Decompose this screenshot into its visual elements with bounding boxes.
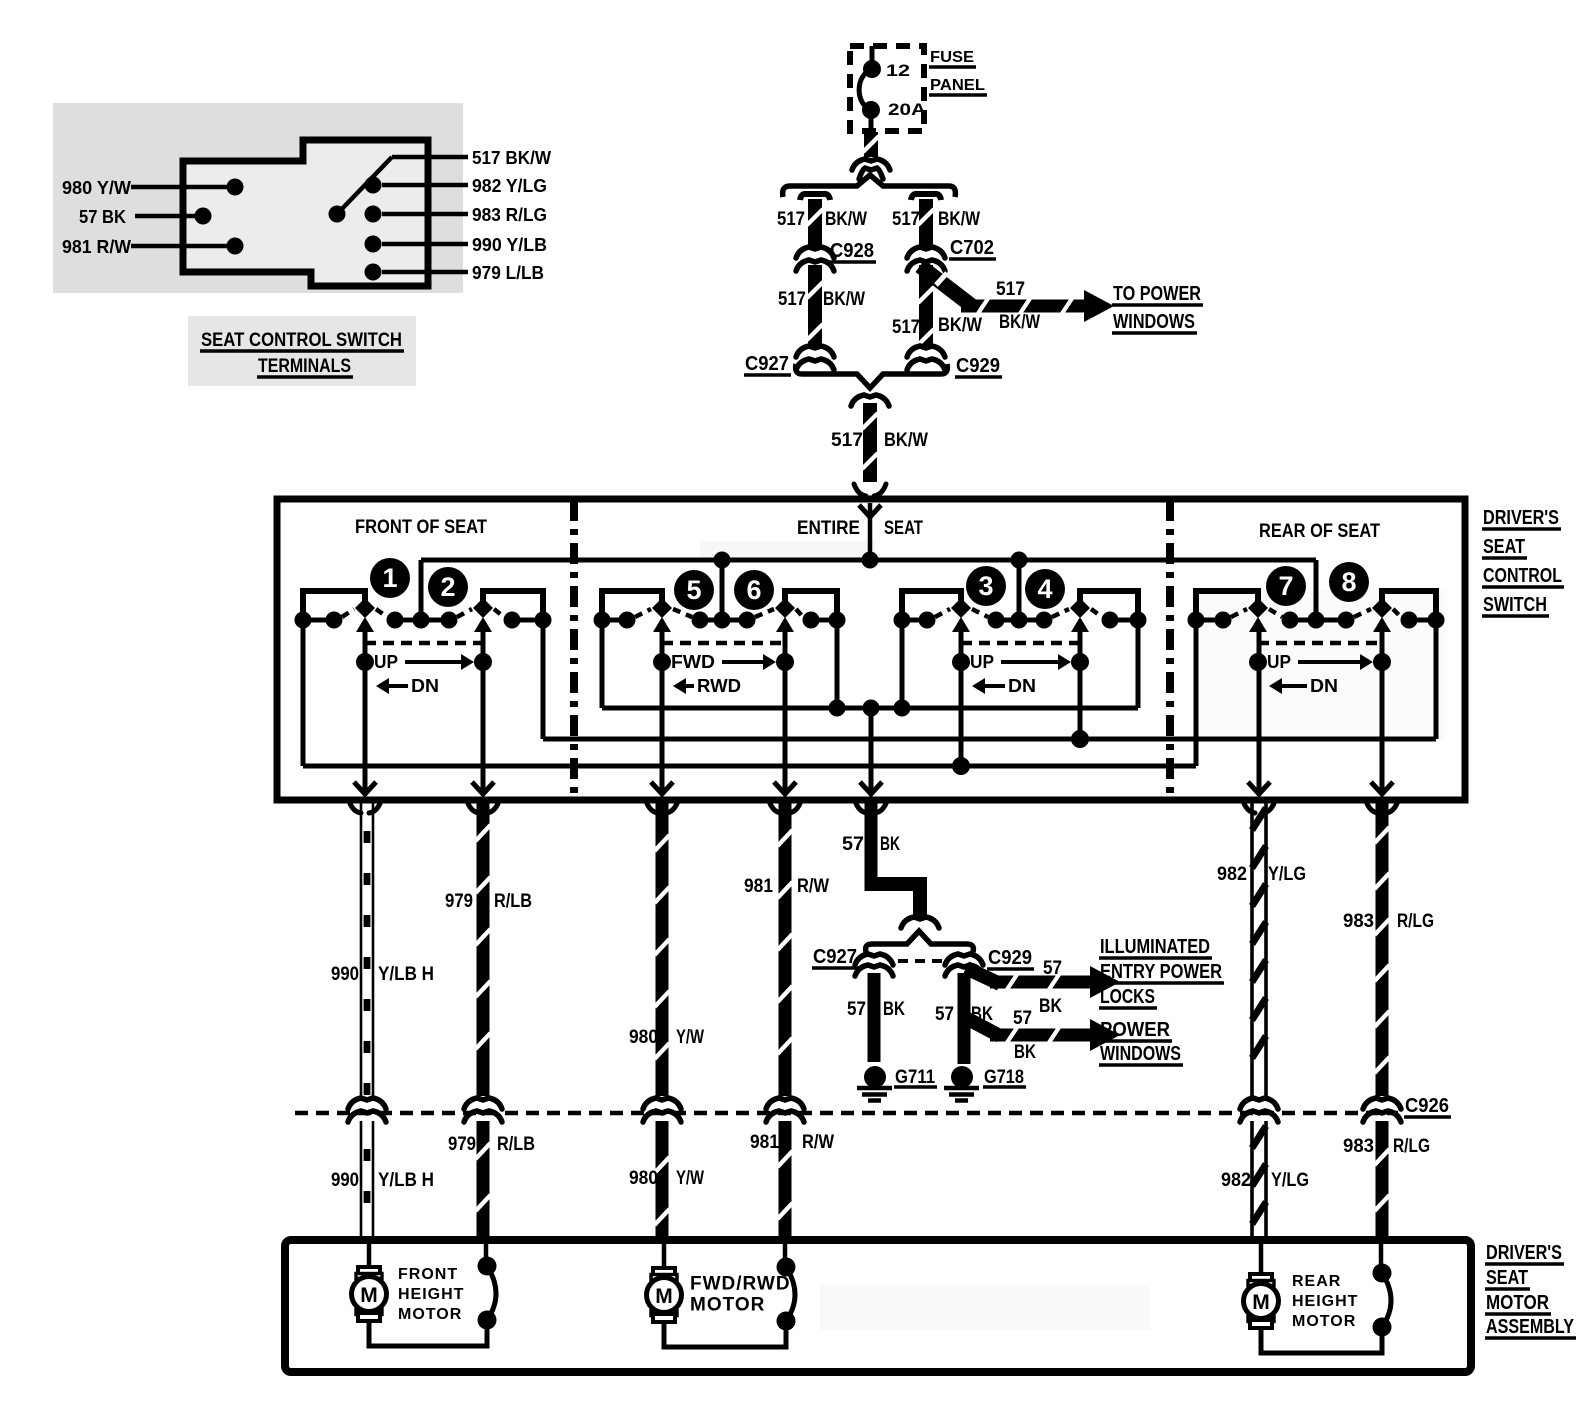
arrow 57 BK to power windows xyxy=(966,1018,1000,1036)
switch rear contact dot x1290 xyxy=(1282,612,1299,629)
svg-text:FWD/RWD: FWD/RWD xyxy=(690,1274,791,1295)
wire 981 R/W lower xyxy=(779,1121,792,1240)
wire 979 R/LB upper xyxy=(477,803,490,1096)
svg-text:57 BK: 57 BK xyxy=(79,207,126,227)
svg-text:ENTIRE: ENTIRE xyxy=(797,518,860,539)
svg-text:MOTOR: MOTOR xyxy=(690,1295,765,1316)
svg-text:HEIGHT: HEIGHT xyxy=(398,1286,464,1303)
switch front right hood xyxy=(483,591,543,618)
wire 980 Y/W lower xyxy=(656,1121,669,1240)
switch fwdrwd pivot P1 xyxy=(652,598,672,618)
svg-text:BK/W: BK/W xyxy=(823,289,865,310)
svg-text:MOTOR: MOTOR xyxy=(1292,1313,1356,1330)
switch entireud contact dot x1138 xyxy=(1130,612,1147,629)
svg-text:981 R/W: 981 R/W xyxy=(62,237,131,257)
lead 982 Y/LG xyxy=(382,183,468,188)
svg-text:517: 517 xyxy=(777,209,805,230)
switch rear contact dot x1436 xyxy=(1428,612,1445,629)
divider entire-rear xyxy=(1166,500,1174,799)
svg-text:WINDOWS: WINDOWS xyxy=(1113,311,1195,333)
bus junction 5-6 xyxy=(714,552,731,569)
svg-text:MOTOR: MOTOR xyxy=(398,1306,462,1323)
wire 517 BK/W left branch cap xyxy=(800,194,830,200)
lead 57 BK xyxy=(135,214,196,219)
scan shading behind seat control switch terminals xyxy=(53,103,463,293)
switch front pivot P1 xyxy=(355,598,375,618)
pin 979 terminal xyxy=(365,264,382,281)
svg-text:R/LG: R/LG xyxy=(1397,911,1434,932)
svg-text:LOCKS: LOCKS xyxy=(1100,986,1155,1008)
connector C702 xyxy=(907,247,945,258)
svg-text:G711: G711 xyxy=(895,1067,935,1088)
switch entireud contact dot x902 xyxy=(894,612,911,629)
switch entireud node P1 dot xyxy=(952,653,970,671)
fuse panel dashed box xyxy=(850,46,924,131)
switch front circle 1 xyxy=(370,558,410,598)
svg-text:20A: 20A xyxy=(888,100,926,119)
svg-text:R/LG: R/LG xyxy=(1393,1136,1430,1157)
svg-text:979: 979 xyxy=(445,891,473,912)
connector cup 979 xyxy=(467,801,479,813)
wire 57 in box xyxy=(869,708,874,792)
switch fwdrwd contact row xyxy=(602,618,627,623)
line A junction 57 xyxy=(863,700,880,717)
svg-text:517: 517 xyxy=(892,317,920,338)
pole 3 wire in box xyxy=(959,629,964,766)
harness dashed line C926 xyxy=(295,1111,1398,1116)
line B junction pole4 xyxy=(1071,730,1089,748)
svg-text:C929: C929 xyxy=(956,355,1000,377)
switch rear contact row xyxy=(1196,618,1223,623)
wire 980 Y/W upper xyxy=(656,803,669,1096)
svg-text:BK: BK xyxy=(1039,996,1062,1017)
switch entireud pivot P1 xyxy=(951,598,971,618)
connector C926 at wire 980 xyxy=(643,1098,681,1109)
svg-text:982 Y/LG: 982 Y/LG xyxy=(472,176,547,196)
line A junction 902 xyxy=(894,700,911,717)
switch entireud left hood xyxy=(902,591,961,618)
wire to motor at x1261 xyxy=(1259,1244,1264,1274)
svg-text:ILLUMINATED: ILLUMINATED xyxy=(1100,936,1210,958)
dashed link C927-C929 xyxy=(898,959,942,963)
svg-text:990: 990 xyxy=(331,964,359,985)
ground G711 xyxy=(864,1066,886,1088)
switch fwdrwd circle 6 xyxy=(734,570,774,610)
switch fwdrwd pivot P2 xyxy=(775,598,795,618)
svg-text:C926: C926 xyxy=(1405,1095,1449,1117)
svg-text:983: 983 xyxy=(1343,1136,1374,1157)
line A junction 837 xyxy=(829,700,846,717)
svg-text:Y/W: Y/W xyxy=(676,1168,704,1189)
wire 517 BK/W from fuse xyxy=(864,132,878,157)
switch fwdrwd node P1 dot xyxy=(653,653,671,671)
svg-text:BK/W: BK/W xyxy=(938,209,980,230)
lead 981 R/W xyxy=(131,244,228,249)
wire 517 BK/W left branch xyxy=(808,199,822,247)
pin 980 terminal xyxy=(227,179,244,196)
wire to motor at x369 xyxy=(367,1244,372,1267)
motor M at x664 xyxy=(653,1268,675,1276)
wire 517 BK/W below C702 xyxy=(919,265,933,346)
svg-text:TO POWER: TO POWER xyxy=(1113,283,1201,305)
pole 981 wire in box xyxy=(783,629,788,792)
net line B xyxy=(543,737,1436,742)
wire 517 entry arrowhead xyxy=(859,505,881,517)
svg-text:980 Y/W: 980 Y/W xyxy=(62,178,131,198)
scan speckle patches xyxy=(1195,590,1445,740)
pin 983 terminal xyxy=(365,206,382,223)
svg-text:982: 982 xyxy=(1217,864,1247,885)
switch front contact dot x449 xyxy=(441,612,458,629)
svg-text:980: 980 xyxy=(629,1027,658,1048)
switch fwdrwd wiper dashes xyxy=(635,609,651,617)
power bus in switch xyxy=(421,558,1316,563)
pole 983 wire in box xyxy=(1380,629,1385,792)
switch front arrow UP xyxy=(405,660,463,664)
connector C926 at wire 979 xyxy=(464,1098,502,1109)
svg-text:PANEL: PANEL xyxy=(930,77,985,94)
connector C926 at wire 990 xyxy=(348,1098,386,1109)
svg-text:G718: G718 xyxy=(984,1067,1024,1088)
pole 980 wire in box xyxy=(660,629,665,792)
switch entireud arrow DN xyxy=(983,684,1005,688)
svg-text:Y/LB H: Y/LB H xyxy=(378,1170,434,1191)
switch fwdrwd arrow RWD xyxy=(684,684,694,688)
wire 57 BK to G711 xyxy=(868,973,881,1062)
svg-text:REAR: REAR xyxy=(1292,1273,1341,1290)
switch rear contact dot x1409 xyxy=(1401,612,1418,629)
lead 980 Y/W xyxy=(131,185,228,190)
wire 517 BK/W to switch xyxy=(863,403,877,482)
svg-text:R/W: R/W xyxy=(802,1132,834,1153)
svg-text:C928: C928 xyxy=(830,240,874,262)
switch fwdrwd right hood xyxy=(785,591,837,618)
svg-text:ASSEMBLY: ASSEMBLY xyxy=(1486,1316,1575,1338)
wire 517 BK/W right branch cap xyxy=(911,194,941,200)
svg-text:517: 517 xyxy=(778,289,806,310)
switch rear node P2 dot xyxy=(1373,653,1391,671)
switch entireud contact dot x1110 xyxy=(1102,612,1119,629)
switch entireud contact row xyxy=(902,618,927,623)
switch rear contact dot x1196 xyxy=(1188,612,1205,629)
svg-text:BK/W: BK/W xyxy=(825,209,867,230)
switch fwdrwd contact dot x700 xyxy=(692,612,709,629)
svg-text:M: M xyxy=(360,1284,378,1307)
switch front contact dot x543 xyxy=(535,612,552,629)
switch front arrow DN xyxy=(387,684,408,688)
svg-text:CONTROL: CONTROL xyxy=(1483,565,1562,587)
svg-text:UP: UP xyxy=(374,652,398,672)
svg-text:517: 517 xyxy=(996,279,1025,300)
57 splice bracket xyxy=(866,931,974,952)
svg-text:SEAT: SEAT xyxy=(884,518,923,539)
switch fwdrwd contact dot x837 xyxy=(829,612,846,629)
svg-text:SEAT: SEAT xyxy=(1483,536,1525,558)
svg-text:517: 517 xyxy=(892,209,920,230)
switch rear contact dot x1346 xyxy=(1338,612,1355,629)
switch rear contact dot x1316 xyxy=(1308,612,1325,629)
pin 517 inner terminal xyxy=(329,206,346,223)
svg-text:980: 980 xyxy=(629,1168,658,1189)
switch entireud contact dot x927 xyxy=(919,612,936,629)
connector C927 lower xyxy=(855,954,893,965)
connector cap below splice xyxy=(851,395,889,406)
svg-text:C927: C927 xyxy=(745,353,789,375)
motor M at x369 xyxy=(358,1267,380,1275)
switch fwdrwd throw dashed line xyxy=(662,641,785,646)
svg-text:SEAT CONTROL SWITCH: SEAT CONTROL SWITCH xyxy=(201,330,402,351)
switch rear pivot P2 xyxy=(1372,598,1392,618)
switch entireud circle 3 xyxy=(966,566,1006,606)
svg-text:Y/LG: Y/LG xyxy=(1271,1170,1309,1191)
wire 57 BK below box xyxy=(865,803,878,883)
svg-text:REAR OF SEAT: REAR OF SEAT xyxy=(1259,521,1380,542)
svg-text:POWER: POWER xyxy=(1100,1019,1171,1041)
lead 517 BK/W diagonal xyxy=(337,157,392,214)
switch rear arrow DN xyxy=(1280,684,1307,688)
arrow to power windows 517 BK/W xyxy=(961,300,1088,313)
svg-text:517: 517 xyxy=(831,430,863,451)
switch front contact dot x421 xyxy=(413,612,430,629)
switch rear circle 8 xyxy=(1329,562,1369,602)
wire 517 BK/W below C928 xyxy=(808,265,822,346)
switch entireud right hood xyxy=(1080,591,1138,618)
lead 983 R/LG xyxy=(382,212,468,217)
wire 981 R/W upper xyxy=(779,803,792,1096)
switch fwdrwd circle 5 xyxy=(674,570,714,610)
switch entireud node P2 dot xyxy=(1071,653,1089,671)
switch fwdrwd contact dot x747 xyxy=(739,612,756,629)
switch rear arrow UP xyxy=(1298,660,1362,664)
switch rear left hood xyxy=(1196,591,1258,618)
svg-text:981: 981 xyxy=(750,1132,779,1153)
switch front pivot P2 xyxy=(473,598,493,618)
svg-text:990 Y/LB: 990 Y/LB xyxy=(472,235,547,255)
svg-text:Y/LG: Y/LG xyxy=(1268,864,1306,885)
switch front circle 2 xyxy=(428,567,468,607)
svg-text:TERMINALS: TERMINALS xyxy=(258,356,351,377)
connector C929 xyxy=(907,346,945,357)
svg-text:C929: C929 xyxy=(988,947,1032,969)
svg-text:FWD: FWD xyxy=(671,652,715,672)
svg-text:6: 6 xyxy=(746,575,761,605)
switch front contact dot x303 xyxy=(295,612,312,629)
arrow 57 BK to illuminated entry xyxy=(966,968,1000,984)
pin 982 terminal xyxy=(365,177,382,194)
wire 57 BK elbow xyxy=(865,877,928,891)
svg-text:57: 57 xyxy=(935,1004,954,1025)
svg-text:12: 12 xyxy=(886,61,910,80)
svg-text:SWITCH: SWITCH xyxy=(1483,594,1547,616)
connector C928 xyxy=(796,247,834,258)
svg-text:M: M xyxy=(1252,1291,1270,1314)
motor bottom wire at x369 xyxy=(369,1320,487,1346)
svg-text:RWD: RWD xyxy=(697,676,741,696)
drivers seat motor assembly box xyxy=(285,1240,1471,1372)
connector cap 57 splice xyxy=(901,917,939,928)
wire to motor at x664 xyxy=(662,1244,667,1268)
svg-text:BK: BK xyxy=(883,999,905,1020)
seat control switch connector body xyxy=(183,140,428,286)
wire 983 R/LG lower xyxy=(1376,1121,1389,1240)
wire 990 Y/LB H lower xyxy=(360,1121,363,1240)
svg-text:ENTRY POWER: ENTRY POWER xyxy=(1100,961,1222,983)
wire 983 R/LG upper xyxy=(1376,803,1389,1096)
switch rear throw dashed line xyxy=(1258,641,1382,646)
switch front contact dot x395 xyxy=(387,612,404,629)
motor M at x1261 xyxy=(1250,1274,1272,1282)
svg-text:C927: C927 xyxy=(813,946,857,968)
svg-text:DRIVER'S: DRIVER'S xyxy=(1486,1242,1562,1264)
switch entireud throw dashed line xyxy=(961,641,1080,646)
wire 517 BK/W right branch xyxy=(919,199,933,247)
pole 4 wire in box xyxy=(1078,629,1083,739)
wire 982 Y/LG upper xyxy=(1250,803,1254,1096)
ground line A xyxy=(602,706,1138,711)
bus junction 517 feed xyxy=(862,552,879,569)
switch entireud pivot P2 xyxy=(1070,598,1090,618)
svg-text:M: M xyxy=(655,1285,673,1308)
switch front throw dashed line xyxy=(365,641,483,646)
connector cup 983 xyxy=(1366,801,1378,813)
switch rear node P1 dot xyxy=(1249,653,1267,671)
switch front contact dot x512 xyxy=(504,612,521,629)
fuse 20A symbol xyxy=(863,60,881,78)
svg-text:DN: DN xyxy=(411,676,439,696)
svg-text:57: 57 xyxy=(847,999,866,1020)
lead 979 L/LB xyxy=(382,270,468,275)
divider front-entire xyxy=(570,500,578,799)
svg-text:R/LB: R/LB xyxy=(497,1134,535,1155)
connector cup 990 xyxy=(349,801,361,813)
svg-text:BK/W: BK/W xyxy=(938,315,982,336)
motor bottom wire at x1261 xyxy=(1261,1327,1382,1353)
connector C926 at wire 982 xyxy=(1240,1098,1278,1109)
switch fwdrwd contact dot x602 xyxy=(594,612,611,629)
svg-text:57: 57 xyxy=(842,834,864,855)
svg-text:FUSE: FUSE xyxy=(930,49,974,66)
switch fwdrwd node P2 dot xyxy=(776,653,794,671)
pole 990 wire in box xyxy=(363,629,368,792)
svg-text:57: 57 xyxy=(1043,958,1062,979)
svg-text:979 L/LB: 979 L/LB xyxy=(472,263,544,283)
switch front node P2 dot xyxy=(474,653,492,671)
svg-text:DN: DN xyxy=(1008,676,1036,696)
connector cap at splice S101 xyxy=(852,159,890,170)
svg-text:1: 1 xyxy=(382,563,397,593)
ground G718 xyxy=(951,1066,973,1088)
motor connector arc at x785 xyxy=(783,1244,788,1267)
connector C926 at wire 983 xyxy=(1363,1098,1401,1109)
svg-text:983 R/LG: 983 R/LG xyxy=(472,205,547,225)
switch entireud arrow UP xyxy=(1001,660,1060,664)
svg-text:982: 982 xyxy=(1221,1170,1251,1191)
bus junction 3-4 xyxy=(1011,552,1028,569)
bus drop group1 xyxy=(419,560,424,618)
svg-text:979: 979 xyxy=(448,1134,476,1155)
switch fwdrwd contact dot x811 xyxy=(803,612,820,629)
svg-text:BK: BK xyxy=(880,834,900,855)
svg-text:517 BK/W: 517 BK/W xyxy=(472,148,551,168)
svg-text:BK/W: BK/W xyxy=(999,312,1040,333)
pin 990 terminal xyxy=(365,236,382,253)
wire 982 Y/LG lower xyxy=(1250,1121,1254,1240)
wire 57 BK to G718 xyxy=(958,973,971,1064)
drivers seat control switch box xyxy=(277,499,1465,800)
pin 981 terminal xyxy=(227,238,244,255)
switch rear right hood xyxy=(1382,591,1436,618)
bus drop group7-8 xyxy=(1314,560,1319,618)
svg-text:FRONT OF SEAT: FRONT OF SEAT xyxy=(355,517,487,538)
wire 517 BK/W diagonal to power windows xyxy=(920,266,972,306)
svg-text:MOTOR: MOTOR xyxy=(1486,1292,1549,1314)
svg-text:R/W: R/W xyxy=(797,876,829,897)
svg-text:57: 57 xyxy=(1013,1008,1032,1029)
pin 57 terminal xyxy=(195,208,212,225)
svg-text:R/LB: R/LB xyxy=(494,891,532,912)
connector C929 lower xyxy=(945,954,983,965)
switch entireud wiper dashes xyxy=(935,609,950,617)
svg-text:Y/W: Y/W xyxy=(676,1027,704,1048)
svg-text:4: 4 xyxy=(1037,574,1052,604)
switch rear pivot P1 xyxy=(1248,598,1268,618)
switch front wiper dashes xyxy=(342,609,354,617)
connector C926 at wire 981 xyxy=(766,1098,804,1109)
connector cup 980 xyxy=(646,801,658,813)
svg-text:2: 2 xyxy=(440,572,455,602)
splice bracket bottom xyxy=(796,364,948,388)
switch fwdrwd contact dot x627 xyxy=(619,612,636,629)
svg-text:BK: BK xyxy=(1014,1042,1036,1063)
wire 990 Y/LB H upper xyxy=(360,803,363,1096)
svg-text:BK/W: BK/W xyxy=(884,430,928,451)
svg-text:SEAT: SEAT xyxy=(1486,1267,1528,1289)
svg-text:981: 981 xyxy=(744,876,773,897)
connector C927 xyxy=(796,346,834,357)
svg-text:FRONT: FRONT xyxy=(398,1266,458,1283)
connector cup 981 xyxy=(769,801,781,813)
switch front left hood xyxy=(303,591,365,618)
svg-text:983: 983 xyxy=(1343,911,1374,932)
switch fwdrwd contact dot x722 xyxy=(714,612,731,629)
pole 982 wire in box xyxy=(1257,629,1262,792)
svg-text:Y/LB H: Y/LB H xyxy=(378,964,434,985)
switch fwdrwd left hood xyxy=(602,591,662,618)
svg-text:WINDOWS: WINDOWS xyxy=(1100,1043,1181,1065)
svg-text:C702: C702 xyxy=(950,237,994,259)
line C junction pole3 xyxy=(952,757,970,775)
motor bottom wire at x664 xyxy=(664,1321,786,1347)
switch fwdrwd arrow FWD xyxy=(722,660,765,664)
connector cup at switch box xyxy=(854,484,866,496)
net line C xyxy=(303,764,1196,769)
switch front contact row xyxy=(303,618,334,623)
connector cup 982 xyxy=(1243,801,1255,813)
connector cup 57 xyxy=(855,801,867,813)
switch entireud contact dot x1044 xyxy=(1036,612,1053,629)
wire 979 R/LB lower xyxy=(477,1121,490,1240)
switch front contact dot x334 xyxy=(326,612,343,629)
switch entireud contact dot x996 xyxy=(988,612,1005,629)
svg-text:HEIGHT: HEIGHT xyxy=(1292,1293,1358,1310)
switch rear circle 7 xyxy=(1266,566,1306,606)
motor connector arc at x486 xyxy=(484,1244,489,1266)
svg-text:5: 5 xyxy=(686,575,701,605)
svg-text:DRIVER'S: DRIVER'S xyxy=(1483,507,1559,529)
switch entireud circle 4 xyxy=(1025,569,1065,609)
switch front node P1 dot xyxy=(356,653,374,671)
svg-text:3: 3 xyxy=(978,571,993,601)
